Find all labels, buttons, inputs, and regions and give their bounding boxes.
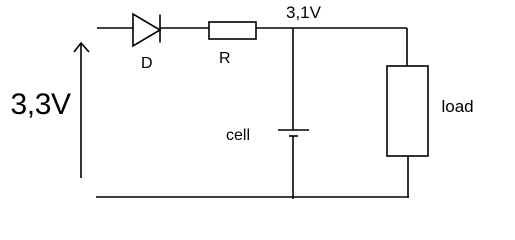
- svg-text:cell: cell: [226, 127, 250, 144]
- svg-text:load: load: [442, 97, 474, 116]
- svg-text:3,1V: 3,1V: [286, 3, 322, 22]
- svg-text:D: D: [141, 55, 153, 72]
- svg-text:3,3V: 3,3V: [11, 88, 72, 121]
- svg-text:R: R: [219, 50, 231, 67]
